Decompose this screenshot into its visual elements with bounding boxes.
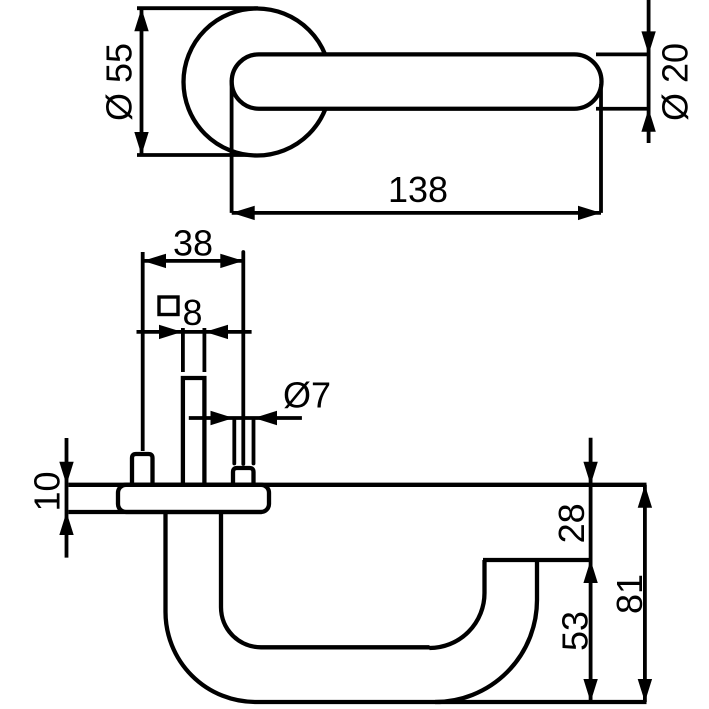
screw hole right line (O7) bbox=[252, 420, 256, 464]
arrowhead O55 top (up) bbox=[134, 8, 148, 31]
grip bottom edge plus 53/81 bottom extension line bbox=[256, 700, 647, 704]
arrowhead 28 bottom / 53 top (up) bbox=[583, 560, 597, 583]
arrowhead sq8 left (points right) bbox=[159, 325, 182, 339]
svg-text:Ø7: Ø7 bbox=[283, 375, 331, 416]
screw hole left line (O7) bbox=[232, 420, 236, 464]
grip end inner contour bbox=[430, 560, 485, 648]
svg-text:Ø 55: Ø 55 bbox=[99, 43, 140, 121]
dim 28/53 dimension line bbox=[589, 438, 593, 702]
dim sq8 left extension line bbox=[181, 328, 185, 372]
grip top edge bbox=[261, 645, 430, 649]
arrowhead 38 left bbox=[143, 254, 166, 268]
arrowhead O7 right (points left) bbox=[254, 411, 277, 425]
rose circle (O55) bbox=[184, 9, 331, 156]
svg-text:81: 81 bbox=[609, 574, 650, 614]
arrowhead 38 right bbox=[220, 254, 243, 268]
left fixing screw nub bbox=[132, 454, 153, 485]
grip end top edge plus 28/53 extension line bbox=[483, 558, 591, 562]
dim 81 dimension line bbox=[643, 485, 647, 702]
arrowhead 138 left bbox=[232, 206, 255, 220]
dim O20 dimension line bbox=[647, 0, 651, 143]
dim O7 dimension line bbox=[189, 416, 302, 420]
dim 38 left extension line bbox=[141, 252, 145, 451]
square symbol of sq8 label bbox=[159, 297, 178, 315]
dim 138 left extension line bbox=[230, 80, 234, 213]
dim sq8 dimension line bbox=[137, 330, 252, 334]
plate bottom edge with 10-dim extension bbox=[69, 510, 263, 514]
grip end outer contour bbox=[435, 560, 537, 702]
square spindle (8mm) bbox=[183, 378, 205, 485]
right fixing screw nub bbox=[233, 468, 254, 485]
dim 138 right extension line bbox=[599, 84, 603, 213]
svg-text:10: 10 bbox=[27, 471, 68, 511]
arrowhead O20 bottom (up) bbox=[641, 109, 655, 132]
dim 38 dimension line bbox=[143, 259, 243, 263]
arrowhead 53 bottom (down) bbox=[583, 679, 597, 702]
arrowhead 81 top (up) bbox=[638, 485, 652, 508]
dim O55 top extension line bbox=[137, 6, 258, 10]
rose plate (10 thick) bbox=[118, 485, 269, 512]
arrowhead 28 top (down) bbox=[583, 462, 597, 485]
handle neck inner contour bbox=[221, 512, 261, 647]
arrowhead 10 bottom (up) bbox=[59, 512, 73, 535]
arrowhead O20 top (down) bbox=[641, 31, 655, 54]
svg-text:28: 28 bbox=[551, 503, 592, 543]
dim 10 dimension line bbox=[65, 438, 69, 558]
svg-text:Ø 20: Ø 20 bbox=[655, 43, 696, 121]
dim sq8 right extension line bbox=[202, 328, 206, 372]
handle neck outer contour bbox=[166, 512, 256, 702]
svg-text:38: 38 bbox=[173, 223, 213, 264]
dim 38 right extension line bbox=[241, 252, 245, 464]
svg-text:8: 8 bbox=[183, 292, 203, 333]
door face line through plate top (extends to 10/28/81 dims) bbox=[69, 483, 647, 487]
arrowhead sq8 right (points left) bbox=[205, 325, 228, 339]
dim O55 bottom extension line bbox=[137, 153, 247, 157]
dim 138 dimension line bbox=[232, 211, 601, 215]
arrowhead 10 top (down) bbox=[59, 462, 73, 485]
arrowhead 138 right bbox=[578, 206, 601, 220]
svg-text:53: 53 bbox=[555, 611, 596, 651]
arrowhead O55 bottom (down) bbox=[134, 132, 148, 155]
dim O20 bottom extension line bbox=[596, 107, 650, 111]
dim O55 dimension line bbox=[140, 8, 144, 155]
dim O20 top extension line bbox=[596, 52, 650, 56]
lever grip stadium outline (138 long, O20 thick) bbox=[232, 54, 602, 108]
svg-text:138: 138 bbox=[388, 169, 448, 210]
arrowhead O7 left (points right) bbox=[211, 411, 234, 425]
arrowhead 81 bottom (down) bbox=[638, 679, 652, 702]
